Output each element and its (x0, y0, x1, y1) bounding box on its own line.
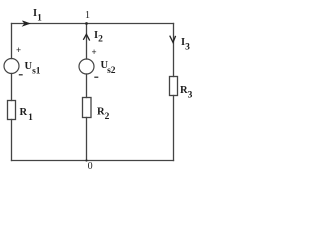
wire right branch lower (R3 to bottom corner) (173, 96, 175, 161)
wire bottom segment (node 0 to right corner) (87, 160, 174, 162)
wire left branch middle (U_s1 to R1) (11, 74, 13, 101)
wire middle branch lower (R2 to node 0) (86, 118, 88, 161)
arrow I3 (current direction down on right branch) (170, 36, 176, 43)
svg-text:I1: I1 (33, 8, 42, 23)
resistor R1 (8, 101, 16, 120)
voltage source U_s1 (4, 59, 19, 74)
svg-text:R2: R2 (97, 107, 110, 123)
wire bottom segment (left corner to node 0) (12, 160, 87, 162)
svg-text:0: 0 (88, 161, 93, 172)
wire top segment (left corner to node 1) (12, 23, 87, 25)
svg-text:R1: R1 (20, 107, 34, 123)
wire middle branch upper (node 1 to U_s2) (86, 24, 88, 60)
voltage source U_s2 (79, 59, 94, 74)
wire top segment (node 1 to right corner) (87, 23, 174, 25)
wire middle branch middle (U_s2 to R2) (86, 74, 88, 98)
node 1 junction dot (85, 22, 88, 25)
arrow I1 (current direction on top wire) (22, 21, 30, 26)
svg-text:R3: R3 (180, 85, 193, 101)
resistor R2 (83, 98, 92, 118)
svg-text:Us1: Us1 (25, 61, 41, 76)
svg-text:+: + (16, 45, 21, 55)
svg-text:I2: I2 (94, 30, 103, 45)
wire left branch upper (corner to U_s1) (11, 24, 13, 59)
U_s2 polarity minus (94, 76, 98, 78)
wire right branch upper (corner to R3) (173, 24, 175, 77)
svg-text:I3: I3 (181, 37, 190, 53)
svg-text:1: 1 (85, 10, 90, 21)
wire left branch lower (R1 to bottom) (11, 120, 13, 161)
resistor R3 (170, 77, 178, 96)
arrow I2 (current direction up on middle branch) (83, 34, 89, 40)
U_s1 polarity minus (19, 74, 23, 76)
svg-text:+: + (92, 47, 97, 57)
svg-text:Us2: Us2 (101, 60, 116, 76)
node 0 junction dot (85, 159, 87, 161)
